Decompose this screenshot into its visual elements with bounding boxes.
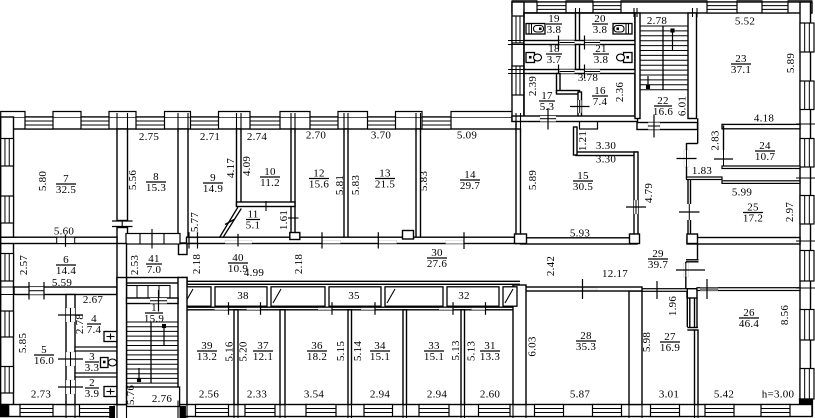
stair 1 treads — [127, 321, 179, 323]
wall room15 top — [576, 152, 637, 156]
wall room25 top — [722, 181, 800, 184]
wall room33|room31 — [461, 310, 465, 405]
stair 1 arrow up — [163, 325, 165, 345]
stair1 right wall — [178, 278, 187, 405]
svg-text:3.30: 3.30 — [596, 140, 617, 152]
wall rooms18/21 | rooms17/16 — [524, 70, 638, 74]
stair 22 treads — [640, 25, 688, 27]
svg-text:5.77: 5.77 — [189, 212, 201, 233]
svg-text:16.0: 16.0 — [34, 355, 55, 367]
wall room24 left — [723, 126, 725, 151]
door room18 — [558, 65, 560, 79]
door room19 — [558, 36, 560, 50]
svg-text:2.53: 2.53 — [129, 255, 141, 276]
svg-text:3.3: 3.3 — [85, 362, 100, 374]
svg-text:15.6: 15.6 — [309, 179, 330, 191]
block room26 top-left — [687, 289, 697, 298]
wall room3|room2 — [75, 373, 117, 377]
wall room27|room26 lower — [695, 330, 699, 405]
dim ticks wing left band — [508, 40, 528, 42]
svg-text:5.09: 5.09 — [457, 130, 478, 142]
svg-text:5.83: 5.83 — [418, 171, 430, 192]
dim ticks bottom band — [65, 401, 67, 418]
svg-text:4.18: 4.18 — [754, 113, 775, 125]
svg-text:2.57: 2.57 — [18, 255, 30, 276]
svg-text:3.54: 3.54 — [304, 389, 325, 401]
svg-text:1.21: 1.21 — [577, 131, 589, 151]
wall room28 right / room27 left — [629, 291, 642, 405]
wall room8|room9 — [178, 129, 188, 243]
svg-text:2.70: 2.70 — [306, 130, 327, 142]
door room11 (corridor wall gap) — [225, 240, 252, 243]
wall room15 right — [634, 152, 638, 238]
svg-text:12.1: 12.1 — [253, 351, 273, 363]
stair 22 bottom wall — [637, 123, 698, 130]
svg-text:1.83: 1.83 — [692, 165, 713, 177]
door gap wall7|8 — [121, 221, 123, 227]
door room9 — [190, 239, 198, 243]
door room25 — [679, 211, 700, 213]
svg-text:35: 35 — [348, 290, 360, 302]
svg-text:3.9: 3.9 — [85, 388, 100, 400]
svg-text:5.89: 5.89 — [527, 170, 539, 191]
svg-text:2.39: 2.39 — [527, 76, 539, 97]
svg-text:7.4: 7.4 — [593, 96, 608, 108]
svg-text:5.85: 5.85 — [17, 333, 29, 354]
wall room11 diagonal — [220, 207, 242, 238]
svg-text:5.20: 5.20 — [238, 341, 250, 362]
bathtub room 20 — [613, 24, 632, 35]
wall corridor top (rooms 7..15 bottom) — [1, 237, 117, 243]
svg-text:7.4: 7.4 — [87, 324, 102, 336]
svg-text:2.18: 2.18 — [191, 254, 203, 275]
svg-text:2.18: 2.18 — [293, 254, 305, 275]
svg-text:5.60: 5.60 — [54, 226, 75, 238]
door room26 — [685, 262, 687, 263]
stairwell 22 walls — [635, 13, 640, 119]
svg-text:32.5: 32.5 — [56, 184, 77, 196]
svg-text:38: 38 — [237, 290, 249, 302]
svg-text:10.9: 10.9 — [228, 263, 249, 275]
svg-text:15.1: 15.1 — [424, 351, 444, 363]
svg-text:6.01: 6.01 — [677, 96, 689, 116]
wall room6|room5 — [14, 287, 117, 295]
svg-text:5.1: 5.1 — [246, 220, 261, 232]
wall room36|room34 — [348, 310, 352, 405]
svg-text:17.2: 17.2 — [743, 213, 763, 225]
toilet room 18 — [526, 53, 535, 63]
svg-text:37.1: 37.1 — [731, 64, 751, 76]
svg-text:4.09: 4.09 — [241, 156, 253, 177]
pillar room14|15 bottom — [515, 234, 527, 244]
svg-text:5.98: 5.98 — [641, 332, 653, 353]
svg-text:2.73: 2.73 — [31, 389, 52, 401]
door room15 right wall — [634, 200, 638, 214]
svg-text:5.87: 5.87 — [570, 389, 591, 401]
pillar room25 bottom-left — [687, 234, 698, 244]
svg-text:18.2: 18.2 — [307, 351, 327, 363]
svg-text:2.71: 2.71 — [200, 131, 220, 143]
wall room25 left — [687, 179, 689, 204]
svg-text:5.83: 5.83 — [350, 175, 362, 196]
entrance porch — [113, 406, 181, 418]
exterior wall: left band with windows — [1, 117, 14, 410]
svg-text:2.78: 2.78 — [647, 15, 668, 27]
vestibule steps — [126, 286, 170, 299]
svg-text:10.7: 10.7 — [755, 151, 776, 163]
dim ticks top band — [116, 113, 118, 133]
wall room5|rooms4,3,2 — [66, 295, 75, 405]
door stair16 threshold box — [580, 121, 598, 129]
wall room4|room3 — [75, 347, 117, 351]
door room12 — [323, 240, 341, 243]
svg-text:5.89: 5.89 — [785, 53, 797, 74]
svg-text:2.67: 2.67 — [83, 294, 104, 306]
svg-text:h=3.00: h=3.00 — [762, 389, 795, 401]
svg-text:3.30: 3.30 — [596, 154, 617, 166]
svg-text:3.7: 3.7 — [547, 54, 562, 66]
svg-text:7.0: 7.0 — [147, 264, 162, 276]
svg-text:30.5: 30.5 — [573, 181, 594, 193]
wall shaft 26|27 — [686, 291, 688, 327]
closet row (38,35,32) — [183, 287, 211, 306]
door tick room10 bottom wall — [265, 201, 267, 211]
svg-text:35.3: 35.3 — [576, 341, 597, 353]
doors rooms 4,3,2 — [66, 308, 75, 322]
svg-text:4.17: 4.17 — [225, 158, 237, 179]
svg-text:14.9: 14.9 — [203, 183, 224, 195]
pillar room15 bottom-right — [630, 234, 640, 244]
wall corridor bottom left part — [117, 278, 187, 284]
door room14 — [446, 241, 464, 244]
svg-text:2.56: 2.56 — [199, 389, 220, 401]
wall room13|room14 — [416, 129, 421, 243]
svg-text:5.3: 5.3 — [540, 101, 555, 113]
lobby wall upper x698 — [697, 118, 699, 143]
svg-text:2.75: 2.75 — [139, 131, 160, 143]
wall room24 top / room23 bottom — [722, 124, 800, 128]
sink room 2 — [104, 387, 117, 397]
pillar wall13|14 top — [403, 231, 414, 240]
svg-text:2.78: 2.78 — [74, 314, 86, 335]
svg-text:13.2: 13.2 — [197, 351, 217, 363]
svg-text:6.03: 6.03 — [527, 336, 539, 357]
svg-text:5.59: 5.59 — [52, 277, 73, 289]
wall room12|room13 — [344, 129, 348, 243]
svg-text:32: 32 — [458, 290, 470, 302]
wall stub 1.21 left of corridor29 — [574, 127, 578, 155]
svg-text:2.60: 2.60 — [480, 389, 501, 401]
wing block bottom wall — [512, 116, 638, 122]
wall room24 bottom — [722, 166, 800, 169]
svg-text:12.17: 12.17 — [602, 268, 628, 280]
wall room17|room16 — [557, 74, 561, 93]
svg-text:2.76: 2.76 — [152, 393, 173, 405]
wall room27 top — [642, 289, 687, 292]
exterior wall: upper wing left band with windows — [512, 2, 524, 121]
svg-text:46.4: 46.4 — [739, 318, 760, 330]
wall room26 top segment — [697, 288, 800, 291]
svg-text:15.9: 15.9 — [144, 313, 165, 325]
wall room37|room36 — [280, 310, 285, 405]
svg-text:2.83: 2.83 — [710, 130, 722, 151]
svg-text:2.33: 2.33 — [247, 389, 268, 401]
svg-text:11.2: 11.2 — [260, 177, 280, 189]
door room21 — [584, 65, 586, 79]
svg-text:5.16: 5.16 — [224, 341, 236, 362]
sink room 4 — [104, 332, 117, 342]
wall room25 bottom — [687, 238, 800, 245]
dim ticks wing top band — [523, 8, 525, 17]
wing block outer walls — [524, 13, 635, 117]
svg-text:5.42: 5.42 — [714, 389, 734, 401]
stair 22 arrow down — [647, 76, 649, 88]
svg-text:1.61: 1.61 — [278, 210, 290, 230]
svg-text:3.78: 3.78 — [578, 72, 599, 84]
svg-text:5.99: 5.99 — [732, 187, 753, 199]
svg-text:15.1: 15.1 — [370, 351, 390, 363]
svg-text:5.13: 5.13 — [466, 341, 478, 362]
door room13 — [379, 240, 397, 243]
wall room10 bottom — [237, 202, 296, 207]
svg-text:2.94: 2.94 — [427, 389, 448, 401]
dim ticks right band — [796, 123, 815, 125]
svg-text:21.5: 21.5 — [375, 179, 396, 191]
exterior wall: bottom band with windows — [1, 405, 812, 417]
svg-text:2.94: 2.94 — [370, 389, 391, 401]
svg-text:2.97: 2.97 — [784, 202, 796, 223]
wall room19|room20 — [576, 13, 580, 44]
svg-text:16.6: 16.6 — [653, 106, 674, 118]
wall rooms19/20 | rooms18/21 — [524, 41, 638, 45]
wall room39|room37 — [234, 310, 238, 405]
corridor29 right wall lower — [686, 167, 688, 179]
exterior wall: upper wing top band with windows — [512, 2, 812, 13]
stair 22 arrow up — [672, 30, 674, 50]
svg-text:1.96: 1.96 — [667, 296, 679, 317]
svg-text:5.93: 5.93 — [570, 228, 591, 240]
wall stub corridor41|40 — [179, 244, 188, 255]
door room24 — [714, 158, 733, 160]
wall room34|room33 — [403, 310, 407, 405]
wall jog 27 — [687, 327, 698, 329]
stair 1 arrow down — [138, 368, 140, 381]
wall rooms4,3,2 right / stair left — [117, 244, 127, 405]
svg-text:3.8: 3.8 — [593, 24, 608, 36]
dim ticks left band — [0, 236, 17, 238]
svg-text:5.81: 5.81 — [334, 175, 346, 195]
wall room10|room12 — [291, 129, 295, 237]
wall room14|room15 — [516, 129, 521, 244]
svg-text:8.56: 8.56 — [779, 305, 791, 326]
svg-text:16.9: 16.9 — [660, 342, 681, 354]
svg-text:5.80: 5.80 — [37, 171, 49, 192]
svg-text:2.36: 2.36 — [614, 82, 626, 103]
exterior wall: main top band with windows — [1, 117, 516, 129]
wall corridor29|room26 upper — [697, 244, 699, 260]
doors of bottom rooms — [215, 308, 229, 310]
door room7-room6 — [57, 237, 75, 243]
svg-text:29.7: 29.7 — [460, 180, 481, 192]
svg-text:5.56: 5.56 — [127, 170, 139, 191]
svg-text:27.6: 27.6 — [427, 258, 448, 270]
exterior wall: right band with windows — [800, 2, 811, 416]
svg-text:3.8: 3.8 — [594, 54, 609, 66]
tick on wall10|12 — [288, 217, 299, 219]
svg-text:3.70: 3.70 — [371, 130, 392, 142]
wall room28 top — [522, 287, 642, 291]
toilet room 3 — [101, 358, 109, 368]
wall room7|room8 — [117, 129, 128, 221]
svg-text:5.13: 5.13 — [450, 340, 462, 361]
wall room9|room10 — [237, 129, 242, 206]
svg-text:14.4: 14.4 — [56, 265, 77, 277]
svg-text:15.3: 15.3 — [146, 182, 167, 194]
closet row under room8 — [126, 234, 180, 245]
pillar wall10|12 bottom — [290, 233, 300, 240]
toilet room 21 — [624, 53, 633, 63]
svg-text:13.3: 13.3 — [480, 351, 501, 363]
svg-text:4.79: 4.79 — [643, 183, 655, 204]
svg-text:3.8: 3.8 — [547, 24, 562, 36]
svg-text:3.01: 3.01 — [659, 389, 679, 401]
svg-text:5.14: 5.14 — [352, 341, 364, 362]
door lobby — [684, 150, 689, 167]
lobby bottom wall — [687, 177, 723, 180]
corridor29 right wall upper — [686, 143, 688, 150]
svg-text:2.74: 2.74 — [247, 131, 268, 143]
svg-text:5.15: 5.15 — [335, 341, 347, 362]
door room20 — [584, 36, 586, 50]
stair1 left wall — [117, 278, 127, 405]
bathtub room 19 — [526, 24, 545, 35]
wall rooms18|21 — [576, 45, 580, 70]
wall room28 left / room31 right — [513, 285, 526, 405]
wall bottom-rooms top — [187, 306, 513, 308]
svg-text:39.7: 39.7 — [648, 259, 669, 271]
wall corridor30 bottom — [187, 280, 521, 282]
stair1 top wall — [127, 298, 179, 304]
svg-text:5.76: 5.76 — [125, 385, 137, 406]
wall corner block bottom-left — [1, 405, 9, 417]
svg-text:5.52: 5.52 — [735, 16, 755, 28]
wall jog room26 — [686, 288, 697, 290]
svg-text:2.42: 2.42 — [545, 256, 557, 276]
